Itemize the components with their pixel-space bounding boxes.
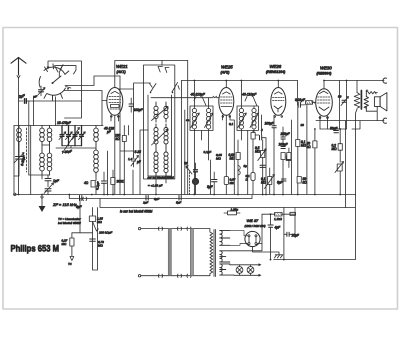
power rail bottom (274, 259, 355, 261)
wire U1 pins down (111, 115, 119, 195)
tube U1 WE21 (AK1) label (116, 64, 128, 74)
svg-text:pF: pF (136, 160, 142, 164)
svg-text:MΩ: MΩ (62, 242, 67, 246)
svg-text:WE25: WE25 (221, 65, 233, 70)
trimmer capacitor 6-25pF (14, 145, 26, 167)
svg-text:100pF: 100pF (265, 122, 275, 126)
wire antenna to ant-cap (19, 100, 24, 102)
svg-text:100 kΩµF: 100 kΩµF (99, 231, 112, 235)
T1 HT secondary (220, 230, 230, 245)
padder capacitor with trimmer arrow (44, 183, 54, 195)
svg-text:6µF: 6µF (76, 205, 83, 209)
svg-text:kΩ: kΩ (307, 145, 312, 149)
vertical feed wires mixer section (108, 76, 149, 195)
svg-text:WE 37: WE 37 (247, 218, 260, 223)
wire box bottoms to bus (148, 61, 188, 195)
IFT1 label (191, 93, 207, 106)
output terminal C bottom (383, 118, 387, 123)
svg-text:7-60µF: 7-60µF (62, 149, 74, 155)
svg-text:1µF: 1µF (53, 179, 60, 183)
svg-text:(RENS1264): (RENS1264) (266, 70, 285, 74)
oscillator box (band coils unit) (144, 65, 175, 179)
resistor 50k (297, 177, 307, 185)
svg-text:5µF: 5µF (176, 201, 181, 205)
wire U4 cathode pins (319, 116, 328, 129)
wire from detector rail down (294, 208, 296, 215)
pilot lamp 2 (247, 265, 254, 276)
resistor 0,15M (251, 131, 255, 195)
second rail (653M models) (69, 195, 252, 199)
capacitor (U1 anode bypass) (129, 98, 144, 112)
resistor (HT filter 2) (290, 212, 296, 215)
tube U4 WE30 (RES964) label (317, 66, 333, 76)
svg-text:5µ: 5µ (244, 164, 248, 168)
wire left column down (13, 126, 15, 194)
third rail to power section (100, 199, 355, 208)
wire rectifier filament to winding (230, 244, 262, 251)
svg-text:4: 4 (261, 128, 263, 132)
resistor 50k (bias) (307, 129, 318, 195)
wire IFT2 connections (241, 81, 259, 141)
svg-text:pF: pF (106, 130, 112, 134)
junction dots on bus (18, 194, 299, 196)
jack contact arcs (238, 166, 240, 175)
wire IFT1 bottoms down (194, 131, 208, 195)
capacitor 100pF (2) (279, 143, 289, 149)
svg-text:(AK1): (AK1) (117, 70, 126, 74)
coil pair (band 2) inside box (154, 124, 168, 147)
resistor (switch shunt) (34, 86, 46, 99)
svg-text:ca: ca (186, 118, 190, 122)
grid stopper resistor (horizontal) (306, 101, 316, 105)
wire HT bus drop right of U3 (297, 81, 299, 105)
svg-text:ZF = 115 kHz: ZF = 115 kHz (52, 202, 77, 207)
resistor 300 Ohm (111, 170, 125, 195)
capacitor 250pF (280, 127, 291, 145)
svg-text:(RES964): (RES964) (317, 72, 332, 76)
wire U4 pin bus (320, 128, 347, 130)
svg-text:kΩ: kΩ (116, 137, 121, 141)
svg-text:15-475pF: 15-475pF (57, 121, 72, 125)
tube U2 WE25 (AF2) label (221, 65, 234, 75)
svg-text:100pF: 100pF (134, 108, 144, 112)
voltage selector bar 1 (168, 229, 171, 276)
svg-text:4Ω: 4Ω (84, 181, 89, 185)
output terminal C top (383, 78, 387, 83)
voltage selector bar 2 (191, 229, 194, 276)
terminal circle on bus left end (14, 193, 16, 195)
wire HT rail y80.5 (181, 81, 297, 107)
wire right side verticals (333, 121, 360, 129)
svg-text:1,4: 1,4 (128, 157, 133, 161)
padder capacitor 1µF (45, 175, 60, 187)
svg-text:1,1kΩ: 1,1kΩ (274, 217, 283, 221)
rectifier U5 WE37 (245, 231, 260, 246)
wire top bus A (48, 61, 82, 118)
IFT2 (2nd IF transformer) (237, 106, 259, 131)
svg-text:40-110pF: 40-110pF (242, 93, 257, 97)
capacitor 50µF (cathode U4) (330, 127, 338, 133)
wire lamp feed lines with arrows (230, 264, 259, 275)
junction dots HT bus (107, 80, 348, 196)
T4 bottom arrow (68, 252, 74, 266)
potentiometer (tone) (335, 162, 344, 195)
power transformer T1 core (214, 230, 216, 277)
resistor (U2 cathode) (224, 115, 235, 194)
T1 heater winding (220, 264, 234, 275)
svg-text:0,1µF: 0,1µF (95, 180, 101, 190)
T1 rectifier filament winding (220, 251, 230, 262)
tube U4 WE30 output pentode (316, 89, 333, 117)
svg-text:30: 30 (301, 123, 305, 127)
electrolytic 4µF (268, 213, 281, 259)
wire x28.8 vertical (28, 101, 30, 175)
svg-text:0,01µF: 0,01µF (295, 98, 306, 102)
mains lead upper (138, 227, 209, 230)
trimmer bank 15-475pF (4 trimmers) (57, 121, 85, 154)
capacitor 1,05µF (gramo contact) (224, 208, 240, 215)
switch contact pair (top, into box) (55, 65, 77, 77)
svg-text:WE30: WE30 (320, 66, 332, 71)
mains lead lower (138, 274, 209, 277)
svg-text:µF: µF (34, 95, 38, 99)
svg-text:40-110pF: 40-110pF (191, 93, 206, 97)
wire rectifier cathode out (262, 214, 275, 243)
svg-text:WE26: WE26 (270, 64, 282, 69)
chassis bus (main ground rail) (14, 194, 356, 196)
smoothing resistor (field) (274, 212, 295, 221)
coil pair (band 1) inside box (154, 102, 168, 122)
trimmer 5-25pF (131, 150, 142, 167)
vertical x30.7 (30, 126, 32, 195)
misc small value labels (scan smudges) (128, 118, 304, 201)
IFT2 label (242, 93, 257, 107)
coil L4 (oscillator input coil) (94, 126, 99, 177)
coil pair (band 3) inside box (154, 147, 168, 177)
resistor 0,2M (332, 129, 343, 162)
svg-text:MΩ: MΩ (216, 157, 221, 161)
resistor 100kOhm (osc grid) (104, 127, 126, 142)
capacitor 0,1µF (cathode bypass) (95, 172, 106, 195)
capacitor 5µF (AF) (277, 179, 286, 185)
connector break on grid wire (213, 96, 217, 98)
svg-text:T4: T4 (68, 262, 72, 266)
T4 switch contact box (89, 216, 112, 235)
transformer core lines (360, 91, 362, 110)
junction dots PSU (270, 259, 285, 261)
wire L1 bottom to bus (14, 166, 19, 176)
wire L2/L3 links (29, 145, 50, 179)
ground symbol (PSU) (253, 247, 283, 258)
capacitor (tone, across primary) (338, 95, 349, 106)
resistor 1M (281, 153, 292, 195)
wire IFT1 secondary to U2 grid (151, 98, 219, 106)
wire osc grid column (123, 126, 125, 195)
capacitor 6µF on bus (76, 196, 83, 210)
resistor 2M (287, 148, 291, 168)
connector break on ground rail (83, 197, 87, 201)
chassis ground arrow (39, 196, 46, 212)
note T4 Umschalter (58, 217, 82, 225)
capacitor 0,1µF (tone) (90, 239, 104, 248)
svg-text:MΩ: MΩ (98, 244, 103, 248)
wire U2 pins (223, 115, 235, 195)
resistor 0,02M (detector load) (229, 140, 241, 195)
svg-text:(AF2): (AF2) (221, 71, 230, 75)
band switch W (rotary wave-change switch) (39, 64, 71, 101)
tube U2 WE25 (AF2) IF pentode (219, 88, 234, 116)
capacitor 5µF on bus (176, 196, 181, 205)
wire HT bus to output transformer and C terminal (324, 80, 384, 82)
resistor 0,1M (grid U3) (296, 105, 307, 195)
svg-text:300Ω: 300Ω (117, 180, 125, 184)
rectifier U5 WE37 label (245, 218, 266, 228)
wire speaker return + C terminal bottom (316, 106, 384, 120)
tube pin circles U1 (111, 116, 283, 118)
capacitor 1µF on bus (143, 196, 148, 205)
pilot lamp 1 (236, 265, 243, 276)
svg-text:MΩ: MΩ (230, 157, 236, 161)
svg-text:0,1: 0,1 (229, 122, 234, 126)
dashed gang link (26, 128, 28, 172)
svg-text:0,1µF: 0,1µF (204, 150, 212, 154)
wire switch lower contact right (64, 91, 107, 126)
svg-text:WE21: WE21 (116, 64, 128, 69)
svg-text:bei Modell 653M: bei Modell 653M (58, 221, 81, 225)
coil L2 (RF coil a) (40, 126, 45, 176)
wire U1 top cap to HT bus B (115, 61, 188, 88)
resistor (AVC decoupling) (84, 181, 95, 188)
capacitor 100pF (265, 115, 277, 195)
svg-text:250pF: 250pF (280, 132, 291, 136)
svg-text:50µF: 50µF (330, 127, 338, 131)
switch contacts inside box (150, 67, 180, 94)
wire antenna down to chassis bus (18, 101, 20, 195)
transformer secondary (364, 90, 368, 111)
capacitor 2pF (antenna series cap) (17, 94, 33, 104)
resistor 0,1M (volume) (261, 168, 275, 195)
wire trimmer bank bottom rail (56, 146, 96, 148)
coil L1 (antenna coil) (17, 126, 22, 145)
speaker SP (374, 93, 387, 111)
wire inside-box verticals (148, 95, 172, 176)
resistor 0,5M (255, 140, 266, 195)
wire antenna cap to columns (34, 100, 82, 102)
svg-text:MΩ: MΩ (261, 181, 267, 185)
wire U4 anode top (323, 81, 325, 89)
wire switch to grid of U1 (65, 76, 120, 86)
vertical wires detector area (210, 105, 307, 195)
capacitor 5µF (cathode) (207, 172, 217, 195)
trimmer arrows on band coils (152, 107, 169, 121)
wire bus B drop into oscillator box (161, 61, 163, 66)
antenna (11, 58, 26, 102)
svg-text:MΩ: MΩ (255, 150, 261, 154)
T4 tone switch assembly rails (72, 199, 98, 271)
wire osc grid links (119, 83, 151, 157)
tube U1 WE21 (AK1) octode (107, 88, 123, 116)
tuning indicator (pointer lamp) (184, 162, 199, 195)
tube U3 WE26 duo-diode-triode (271, 88, 286, 116)
resistor 0,27M (62, 233, 75, 252)
humbucking coil (horizontal zigzag) (366, 92, 377, 94)
svg-text:MΩ: MΩ (97, 220, 102, 224)
resistor (IF damping) (246, 173, 256, 182)
wire U3 top to HT bus (277, 81, 279, 88)
svg-text:4µF: 4µF (275, 226, 282, 230)
wire top bus A inner (56, 65, 77, 67)
wire speaker return to 653M bus (345, 121, 347, 208)
svg-text:ie nur bei Modell 653M: ie nur bei Modell 653M (120, 210, 153, 214)
svg-text:≈ +1,98 µF: ≈ +1,98 µF (148, 184, 163, 188)
svg-text:MΩ: MΩ (332, 147, 338, 151)
capacitor 100pF (IF bypass) (260, 136, 267, 195)
tube U3 WE26 (RENS1264) label (266, 64, 285, 74)
capacitor 50µF (260, 165, 265, 167)
svg-text:Philips 653 M: Philips 653 M (11, 242, 60, 253)
power transformer T1 primary (210, 229, 213, 276)
coil L3 (RF coil b) (47, 126, 52, 176)
capacitor 0,01µF (coupling to output) (295, 98, 306, 107)
svg-text:kΩ: kΩ (303, 181, 308, 185)
wire HT to rectifier (230, 230, 248, 245)
svg-text:1µF: 1µF (143, 201, 148, 205)
output transformer T2 primary (zigzag) (346, 81, 348, 130)
svg-text:100pF: 100pF (279, 143, 289, 147)
speaker field choke (zigzag) (354, 81, 360, 260)
wire U2 top cap (225, 81, 227, 88)
IFT1 (1st IF transformer) (190, 106, 213, 131)
wire coil row top rail (14, 125, 103, 127)
wire osc coil bottom (95, 176, 97, 195)
svg-text:6µF: 6µF (154, 197, 159, 201)
wire x33.5 vertical (33, 96, 35, 126)
electrolytic 15µF (284, 208, 300, 260)
